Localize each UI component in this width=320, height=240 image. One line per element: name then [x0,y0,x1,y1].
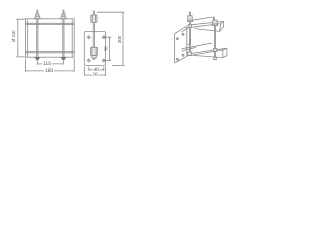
iso rod left [189,22,190,52]
iso bracket at top beam [187,39,191,44]
front rod left [37,19,38,57]
iso plate hole LT [176,38,178,40]
iso plate inner top edge [182,27,189,32]
iso bolt right [212,17,217,26]
middle view top nut [91,15,97,22]
middle view top stem [93,11,94,16]
dim 40 [89,67,104,71]
front bolt right [61,10,67,19]
dim 115 [37,61,63,65]
iso bottom beam [187,48,227,57]
dim 160 [25,58,74,71]
middle view hole top-left [87,36,90,39]
iso bolt left [188,12,193,22]
dim 160 label [44,68,54,74]
front left member inner edge [27,20,29,58]
middle view stem below nut [93,22,94,31]
dim 200 [97,12,125,65]
front bottom bar inner lines [25,52,74,53]
middle view lower nut [91,47,98,60]
dim 70 bottom label [92,72,99,78]
svg-text:200: 200 [117,35,122,43]
svg-text:40: 40 [94,67,100,73]
iso top beam [187,21,224,31]
iso plate hole RT [182,33,184,35]
dim 40 label [93,67,100,73]
front right member inner edge [71,20,73,58]
iso top beam far lip [188,17,213,21]
dim 70 vertical [104,37,111,62]
iso plate hole LB [176,58,178,60]
iso nut on bottom beam right [213,48,217,51]
dim left vertical [16,19,25,57]
dim left label [11,29,17,44]
svg-text:115: 115 [43,61,51,67]
front bottom nut left [35,57,41,61]
svg-text:Ø 110: Ø 110 [11,30,16,42]
front bottom nut right [61,57,66,61]
iso rod right [214,26,215,49]
middle view rod over plate [93,32,94,48]
middle view hole top-right [102,36,105,39]
middle view hole bottom-right [102,59,105,62]
front bolt left [34,10,40,19]
front view frame outer [25,19,74,57]
iso nut on bottom beam left [187,52,191,55]
svg-text:70: 70 [92,72,98,78]
svg-text:70: 70 [103,46,108,51]
iso rod tail and tip nut below bottom beam right [214,51,217,59]
iso bracket lines at bottom beam [182,43,213,51]
svg-text:160: 160 [45,68,54,74]
middle view hole bottom-left [87,59,90,62]
middle view plate [84,32,105,66]
front top bar inner lines [25,23,74,24]
iso plate hole RB [182,54,184,56]
iso wall plate [175,26,187,62]
dim 115 label [42,61,52,67]
dim 70 bottom [84,67,105,76]
iso nut on top beam left [188,25,191,28]
front rod right [63,19,64,57]
